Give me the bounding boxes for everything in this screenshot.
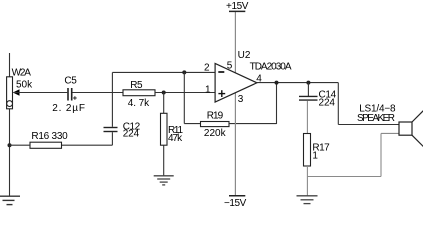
U2 inverting input minus mark: [218, 71, 224, 73]
wire: output corner riser down to LS1 top terminal level: [337, 83, 339, 125]
svg-text:5: 5: [227, 60, 233, 71]
wire: W2A wiper to C5 left plate (signal): [14, 92, 67, 94]
resistor R16: [30, 142, 62, 148]
wire: R11 bottom to ground: [163, 145, 165, 175]
capacitor C5 (polarized, plates): [68, 88, 72, 101]
wire: pin 2 line corner down to C12 top plate (crosses signal line): [111, 72, 113, 126]
ground: R11: [154, 176, 174, 185]
potentiometer W2A (body, bottom-terminal ring, wiper arrow): [7, 77, 20, 109]
wire: speaker return horizontal to riser: [307, 176, 381, 178]
-15V power rail wire from op-amp pin 3 down to bar: [234, 93, 236, 196]
wire: C14 bottom plate down to R17 top: [306, 101, 308, 134]
resistor R11: [161, 113, 168, 145]
svg-text:W2A: W2A: [12, 68, 32, 79]
ground: R17 / speaker return: [297, 196, 318, 204]
wire: R16 left to W2A ground node: [10, 144, 31, 146]
svg-text:−15V: −15V: [224, 198, 247, 207]
wire: open input to W2A top terminal: [9, 53, 11, 77]
+15V power rail wire down to op-amp pin 5: [234, 12, 236, 73]
wire: R19 right to feedback riser (crosses pin 3 rail): [229, 123, 277, 125]
power symbol -15V (bar): [229, 195, 245, 197]
wire: R19 riser from pin 2 line down to R19 left (crosses pin 1 line): [183, 72, 185, 123]
wire: pin 1 node down to R11 top: [163, 93, 165, 114]
svg-text:SPEAKER: SPEAKER: [357, 113, 395, 124]
svg-text:220k: 220k: [204, 128, 227, 139]
wire: riser to R19 left terminal: [184, 123, 200, 125]
svg-text:R5: R5: [130, 80, 143, 91]
wire: R5 right to op-amp pin 1 (+) input: [155, 92, 215, 94]
wire: op-amp pin 4 output line: [257, 82, 338, 84]
ground: input divider node: [0, 196, 20, 204]
svg-text:2: 2: [204, 63, 210, 74]
resistor R17: [304, 134, 311, 167]
junction: output / C14 tap: [306, 81, 310, 85]
junction: R5/R11 node on pin 1 line: [162, 91, 166, 95]
svg-text:3: 3: [238, 94, 244, 105]
op-amp U2 TDA2030A (triangle body): [215, 64, 257, 103]
svg-text:2. 2µF: 2. 2µF: [52, 103, 86, 114]
wire: C12 bottom plate down to R16 right wire level: [111, 132, 113, 145]
wire: W2A bottom terminal down to ground: [9, 109, 11, 196]
wire: LS1 top terminal lead: [338, 124, 399, 126]
U2 non-inverting input plus mark: [218, 90, 225, 97]
svg-text:224: 224: [319, 97, 336, 108]
svg-text:C5: C5: [64, 75, 77, 86]
wire: feedback riser up to output node: [276, 83, 278, 124]
capacitor C14 (plates): [299, 96, 318, 100]
svg-text:U2: U2: [238, 50, 251, 61]
wire: speaker return riser up to LS1 bottom terminal: [380, 133, 382, 176]
power symbol +15V (bar): [229, 10, 245, 12]
resistor R5: [123, 90, 155, 96]
svg-text:1: 1: [205, 84, 211, 95]
svg-text:47k: 47k: [168, 133, 183, 144]
svg-text:+15V: +15V: [226, 1, 249, 12]
wire: LS1 bottom terminal lead: [381, 132, 399, 134]
svg-text:R16 330: R16 330: [31, 131, 68, 142]
svg-text:TDA2030A: TDA2030A: [250, 62, 292, 73]
wire: C5 right plate to R5 left: [72, 92, 123, 94]
svg-text:50k: 50k: [16, 80, 33, 91]
svg-text:R19: R19: [207, 111, 224, 122]
svg-text:224: 224: [123, 128, 140, 139]
capacitor C12 (plates): [104, 128, 118, 132]
junction: node W2A bottom / R16 left / ground: [8, 143, 12, 147]
resistor R19: [201, 122, 230, 127]
svg-text:4. 7k: 4. 7k: [128, 98, 150, 109]
wire: R17 bottom to ground: [306, 166, 308, 196]
wire: op-amp pin 2 (-) input line from C12 riser corner to triangle: [112, 71, 215, 73]
C5 polarity plus mark: [73, 96, 77, 100]
speaker LS1/4-8 (box and cone): [399, 111, 423, 147]
svg-text:1: 1: [312, 151, 318, 162]
junction: pin 2 line / R19 feedback riser: [182, 70, 186, 74]
wire: output node down to C14 top plate: [307, 83, 309, 96]
wire: R16 right to C12 bottom corner: [62, 144, 113, 146]
junction: output / feedback riser: [275, 81, 279, 85]
